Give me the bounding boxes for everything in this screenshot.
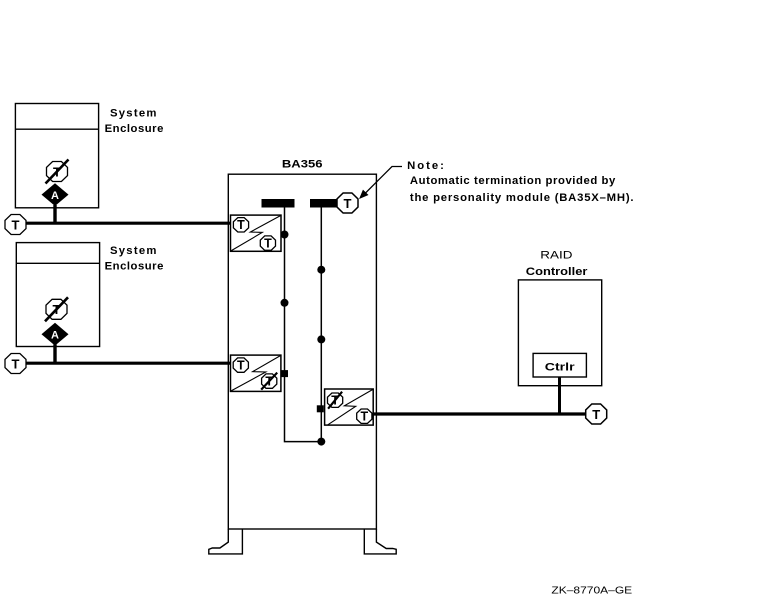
- terminator bar 1 (black): [262, 199, 295, 208]
- module 2 zigzag path: [231, 356, 280, 391]
- svg-text:BA356: BA356: [282, 158, 323, 170]
- module 2 terminator T (upper-left): [233, 358, 248, 373]
- note arrowhead: [360, 190, 368, 198]
- termination module 2 box: [231, 355, 281, 391]
- svg-text:the personality module (BA35X–: the personality module (BA35X–MH).: [410, 192, 634, 204]
- svg-text:T: T: [12, 356, 20, 371]
- svg-text:Enclosure: Enclosure: [105, 260, 164, 272]
- module 1 terminator T (lower-right): [260, 236, 275, 251]
- stub wire from adapter 2 to bus 2: [53, 345, 56, 364]
- termination module 3 box: [325, 389, 374, 425]
- svg-text:T: T: [237, 359, 245, 373]
- RAID controller box: [518, 280, 601, 386]
- BA356 left foot: [209, 529, 243, 554]
- terminator bar 2 (black): [310, 199, 340, 208]
- junction square on line 2 at module 3: [317, 405, 324, 412]
- svg-text:T: T: [592, 407, 600, 422]
- enclosure box: System Enclosure 1: [15, 104, 98, 208]
- Ctrlr sub-box: [533, 353, 586, 377]
- junction square on line 1 at module 2: [281, 370, 288, 377]
- stub wire from adapter 1 to bus 1: [53, 205, 56, 223]
- bus wire 3 (RAID SCSI bus): [373, 412, 586, 415]
- label: System Enclosure 2: [105, 245, 164, 273]
- module 2 disabled terminator (slashed T, lower-right): [261, 373, 277, 390]
- junction dot on line 2 (y 339.4): [317, 335, 325, 343]
- module 3 disabled terminator (slashed T, upper-left): [328, 392, 343, 409]
- junction dot at bottom corner joint: [317, 438, 325, 446]
- bus wire 1 (upper SCSI bus): [26, 222, 231, 225]
- junction dot on line 1 (y 302.8): [281, 299, 289, 307]
- svg-text:T: T: [12, 217, 20, 232]
- svg-text:Automatic termination provided: Automatic termination provided by: [410, 175, 616, 187]
- wire: vertical daisy-chain line 1: [285, 208, 322, 442]
- svg-text:ZK–8770A–GE: ZK–8770A–GE: [551, 586, 632, 597]
- svg-text:A: A: [51, 190, 59, 202]
- disabled terminator (slashed T) in enclosure 2: [45, 297, 68, 321]
- BA356 right foot: [364, 529, 396, 554]
- terminator T, left end of bus 1: [5, 215, 26, 235]
- termination module 1 box: [231, 215, 282, 251]
- adapter diamond A, enclosure 1: [42, 183, 69, 206]
- label: System Enclosure 1: [105, 107, 164, 134]
- enclosure box: System Enclosure 2: [16, 243, 99, 347]
- wire: vertical daisy-chain line 2: [320, 208, 322, 442]
- module 1 terminator T (upper-left): [233, 218, 248, 233]
- note text: [407, 160, 633, 204]
- svg-text:T: T: [237, 218, 245, 232]
- module 1 zigzag path: [231, 216, 281, 251]
- svg-text:Controller: Controller: [526, 266, 588, 278]
- module 3 zigzag path: [328, 390, 373, 425]
- svg-text:A: A: [51, 330, 59, 342]
- bus wire 2 (lower SCSI bus): [26, 362, 231, 365]
- adapter diamond A, enclosure 2: [42, 323, 69, 346]
- wire from Ctrlr to bus 3: [558, 377, 561, 414]
- svg-text:RAID: RAID: [540, 250, 572, 262]
- svg-text:System: System: [110, 245, 156, 257]
- svg-text:T: T: [264, 237, 272, 251]
- automatic terminator T at top of BA356: [337, 193, 358, 213]
- module 3 terminator T (lower-right): [357, 409, 372, 424]
- svg-text:Enclosure: Enclosure: [105, 123, 164, 135]
- terminator T, left end of bus 2: [5, 354, 26, 374]
- terminator T, right end of bus 3: [586, 404, 607, 424]
- note leader line: [365, 167, 403, 195]
- BA356 cabinet outline: [228, 174, 376, 529]
- svg-text:T: T: [360, 410, 368, 424]
- svg-text:T: T: [344, 196, 352, 211]
- svg-text:System: System: [110, 107, 156, 119]
- junction dot on line 2 (y 269.7): [317, 266, 325, 274]
- junction dot on line 1 (y 234.5): [281, 231, 289, 239]
- disabled terminator (slashed T) in enclosure 1: [46, 160, 69, 184]
- svg-text:Note:: Note:: [407, 160, 444, 172]
- svg-text:Ctrlr: Ctrlr: [545, 362, 576, 374]
